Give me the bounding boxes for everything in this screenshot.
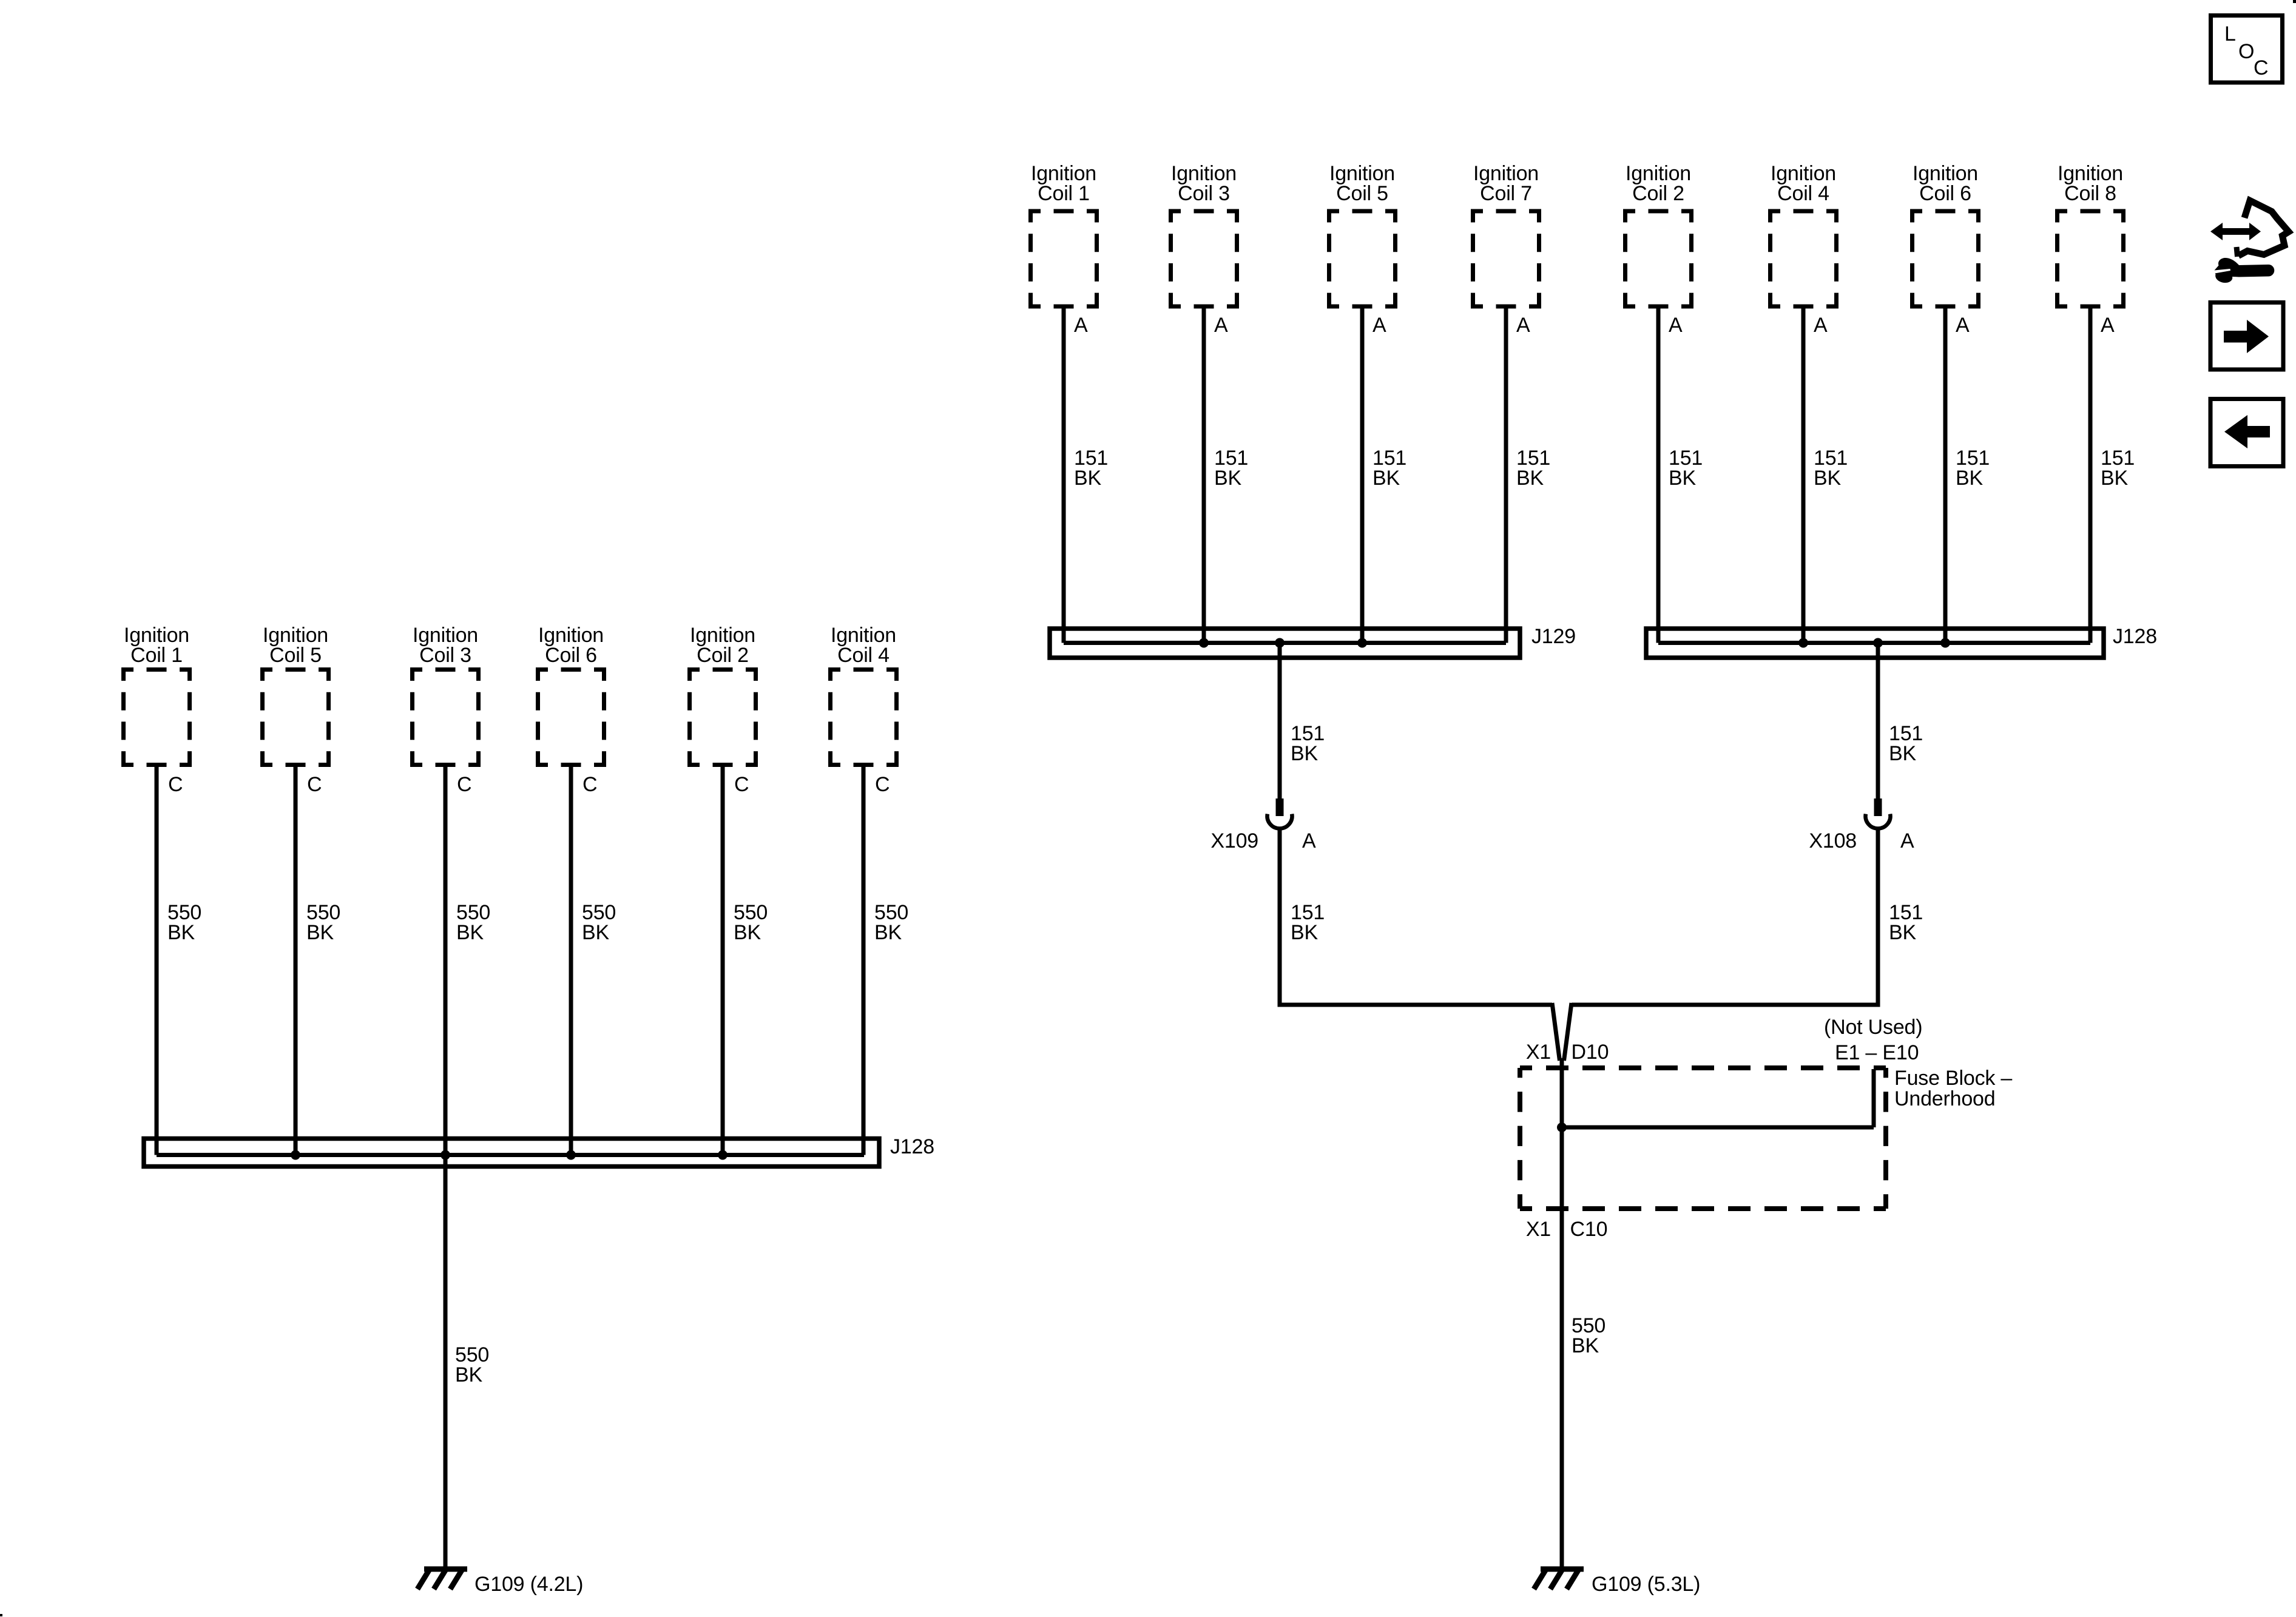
wire 151 BK from coil 6 pin A to splice (1943, 306, 1948, 643)
svg-text:BK: BK (1214, 467, 1241, 490)
svg-text:J129: J129 (1531, 625, 1576, 648)
svg-text:BK: BK (1373, 467, 1400, 490)
svg-text:Coil 4: Coil 4 (837, 644, 890, 667)
svg-text:A: A (1669, 314, 1683, 337)
wire horizontal run from X109 toward fuse block (1278, 1003, 1553, 1007)
svg-text:C: C (734, 773, 749, 796)
svg-text:Coil 6: Coil 6 (545, 644, 597, 667)
wire merge funnel into X1 D10 (1552, 1003, 1572, 1061)
svg-text:Coil 2: Coil 2 (697, 644, 749, 667)
svg-text:C10: C10 (1570, 1218, 1608, 1241)
svg-text:BK: BK (1516, 467, 1544, 490)
junction dot at x=487 on J128 bus (291, 1150, 300, 1160)
svg-text:C: C (875, 773, 890, 796)
svg-text:(Not Used): (Not Used) (1824, 1016, 1922, 1039)
LOC legend box (2211, 16, 2283, 83)
splice J128 (5.3L) outer box (1646, 629, 2104, 658)
wire 151 BK from coil 4 pin A to splice (1801, 306, 1806, 643)
ignition coil 6 (5.3L bank) dashed box (1910, 211, 1980, 306)
svg-text:X1: X1 (1526, 1218, 1551, 1241)
ignition coil 1 (4.2L bank) dashed box (121, 670, 192, 765)
wire 151 BK below X108 (1876, 830, 1880, 1007)
svg-text:J128: J128 (2113, 625, 2157, 648)
page corner mark top right (2293, 0, 2296, 3)
svg-text:A: A (2101, 314, 2115, 337)
svg-text:G109 (4.2L): G109 (4.2L) (474, 1573, 583, 1596)
svg-text:BK: BK (1956, 467, 1983, 490)
splice J128 (4.2L) bus wire (157, 1153, 864, 1157)
junction dot at x=3095 on J128 bus (1873, 638, 1883, 648)
wire 151 BK from coil 8 pin A to splice (2088, 306, 2093, 643)
wire horizontal run from X108 toward fuse block (1572, 1003, 1880, 1007)
svg-text:A: A (1956, 314, 1970, 337)
svg-text:C: C (307, 773, 322, 796)
ignition coil 2 (5.3L bank) dashed box (1623, 211, 1693, 306)
wire 550 BK from coil 5 pin C to splice J128 (294, 765, 298, 1155)
svg-text:BK: BK (1889, 921, 1916, 944)
ignition coil 7 (5.3L bank) dashed box (1471, 211, 1541, 306)
wire 550 BK from coil 3 pin C to splice J128 (444, 765, 448, 1155)
ignition coil 4 (4.2L bank) dashed box (828, 670, 899, 765)
svg-text:G109 (5.3L): G109 (5.3L) (1592, 1573, 1700, 1596)
svg-text:Coil 5: Coil 5 (1336, 182, 1388, 205)
svg-text:Coil 7: Coil 7 (1480, 182, 1532, 205)
svg-text:A: A (1900, 829, 1914, 852)
back arrow box (2210, 399, 2283, 467)
svg-text:A: A (1814, 314, 1828, 337)
junction dot inside fuse block (1557, 1122, 1567, 1132)
junction dot at x=941 on J128 bus (566, 1150, 576, 1160)
ignition coil 2 (4.2L bank) dashed box (687, 670, 758, 765)
splice J128 (5.3L) bus wire (1658, 641, 2090, 645)
forward arrow box (2210, 303, 2283, 370)
svg-text:A: A (1373, 314, 1386, 337)
svg-text:X109: X109 (1210, 829, 1258, 852)
splice J129 outer box (1050, 629, 1520, 658)
svg-text:A: A (1516, 314, 1530, 337)
junction dot at x=2245 on J129 bus (1357, 638, 1367, 648)
ignition coil 8 (5.3L bank) dashed box (2055, 211, 2125, 306)
wire 151 BK from coil 2 pin A to splice (1656, 306, 1661, 643)
svg-text:BK: BK (167, 921, 195, 944)
svg-text:Coil 5: Coil 5 (269, 644, 322, 667)
splice J129 bus wire (1064, 641, 1506, 645)
connector X109 symbol (1268, 798, 1292, 828)
wire 151 BK from coil 5 pin A to splice (1360, 306, 1365, 643)
svg-text:C: C (457, 773, 471, 796)
internal bus to E1-E10 (not used) (1562, 1126, 1874, 1130)
ground G109 (5.3L) symbol (1534, 1569, 1584, 1589)
ignition coil 3 (5.3L bank) dashed box (1169, 211, 1239, 306)
svg-text:D10: D10 (1572, 1041, 1609, 1064)
wire 550 BK from coil 4 pin C to splice J128 (862, 765, 866, 1155)
page corner mark bottom left (0, 1614, 2, 1616)
wire 550 BK from coil 1 pin C to splice J128 (155, 765, 159, 1155)
svg-text:BK: BK (456, 921, 484, 944)
wire 550 BK from coil 2 pin C to splice J128 (721, 765, 725, 1155)
wire main vertical through fuse block (X1 D10 to C10) (1560, 1058, 1564, 1569)
svg-text:BK: BK (1074, 467, 1101, 490)
ignition coil 1 (5.3L bank) dashed box (1028, 211, 1099, 306)
junction dot at x=2972 on J128 bus (1798, 638, 1808, 648)
svg-text:BK: BK (1669, 467, 1696, 490)
svg-text:BK: BK (1889, 742, 1916, 765)
svg-text:L: L (2224, 22, 2236, 46)
svg-text:C: C (168, 773, 183, 796)
wire 151 BK from splice to connector X108 (1876, 643, 1880, 799)
junction dot at x=734 on J128 bus (441, 1150, 450, 1160)
svg-text:Fuse Block –: Fuse Block – (1894, 1067, 2012, 1090)
svg-text:BK: BK (1291, 742, 1318, 765)
svg-text:Coil 2: Coil 2 (1632, 182, 1684, 205)
svg-text:BK: BK (2101, 467, 2128, 490)
svg-text:Coil 1: Coil 1 (1038, 182, 1090, 205)
svg-text:BK: BK (582, 921, 609, 944)
ignition coil 5 (4.2L bank) dashed box (260, 670, 331, 765)
svg-text:O: O (2238, 40, 2254, 63)
ground G109 (4.2L) symbol (417, 1569, 467, 1589)
junction dot at x=1984 on J129 bus (1199, 638, 1209, 648)
junction dot at x=3206 on J128 bus (1940, 638, 1950, 648)
svg-text:BK: BK (734, 921, 761, 944)
wire 151 BK from coil 7 pin A to splice (1504, 306, 1508, 643)
svg-text:Coil 6: Coil 6 (1919, 182, 1971, 205)
wire 151 BK from splice to connector X109 (1278, 643, 1282, 799)
junction dot at x=2109 on J129 bus (1275, 638, 1285, 648)
svg-text:BK: BK (1814, 467, 1841, 490)
svg-text:BK: BK (306, 921, 334, 944)
svg-text:A: A (1214, 314, 1228, 337)
svg-text:Coil 3: Coil 3 (1178, 182, 1230, 205)
svg-text:X1: X1 (1526, 1041, 1551, 1064)
splice J128 (4.2L) outer box (144, 1139, 879, 1167)
svg-text:Coil 8: Coil 8 (2064, 182, 2116, 205)
svg-text:X108: X108 (1809, 829, 1857, 852)
svg-text:A: A (1074, 314, 1088, 337)
wire 151 BK from coil 3 pin A to splice (1202, 306, 1206, 643)
fuse block - underhood dashed box (1520, 1068, 1886, 1209)
ignition coil 5 (5.3L bank) dashed box (1327, 211, 1397, 306)
svg-text:BK: BK (455, 1363, 482, 1386)
wire 550 BK from splice J128 to ground G109 (4.2L) (444, 1155, 448, 1570)
wire 151 BK from coil 1 pin A to splice (1062, 306, 1066, 643)
svg-text:C: C (582, 773, 597, 796)
connector-repair icon: double arrow with wrench (2210, 201, 2289, 283)
svg-text:J128: J128 (890, 1135, 934, 1158)
svg-text:Coil 4: Coil 4 (1777, 182, 1829, 205)
svg-text:BK: BK (1291, 921, 1318, 944)
svg-text:Coil 1: Coil 1 (130, 644, 183, 667)
ignition coil 3 (4.2L bank) dashed box (410, 670, 481, 765)
svg-text:C: C (2254, 56, 2268, 79)
svg-text:Coil 3: Coil 3 (419, 644, 471, 667)
svg-text:BK: BK (1572, 1334, 1599, 1357)
svg-text:E1 – E10: E1 – E10 (1835, 1041, 1919, 1064)
ignition coil 6 (4.2L bank) dashed box (536, 670, 606, 765)
wire 550 BK from coil 6 pin C to splice J128 (569, 765, 573, 1155)
svg-text:BK: BK (874, 921, 902, 944)
svg-text:A: A (1302, 829, 1316, 852)
wire 151 BK below X109 (1278, 830, 1282, 1007)
junction dot at x=1191 on J128 bus (718, 1150, 728, 1160)
ignition coil 4 (5.3L bank) dashed box (1768, 211, 1838, 306)
connector X108 symbol (1866, 798, 1891, 828)
svg-text:Underhood: Underhood (1894, 1087, 1995, 1110)
